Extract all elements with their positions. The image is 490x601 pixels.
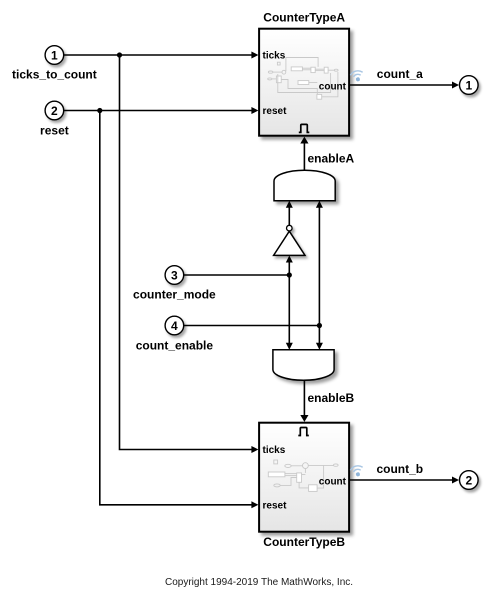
label counter_mode	[133, 288, 216, 302]
NOT gate	[274, 225, 305, 255]
subsystem CounterTypeB	[259, 423, 349, 532]
wire count_enable	[184, 325, 319, 327]
AND gate enableA	[274, 170, 335, 201]
svg-text:ticks_to_count: ticks_to_count	[12, 68, 97, 82]
svg-text:enableA: enableA	[308, 152, 355, 166]
inport 1	[45, 46, 64, 65]
logging badge A	[350, 70, 365, 83]
label enableA	[308, 152, 355, 166]
svg-text:count_enable: count_enable	[136, 339, 214, 353]
svg-text:4: 4	[171, 319, 178, 333]
svg-text:2: 2	[51, 104, 58, 118]
wire count_enable vertical to gates A and B	[316, 201, 323, 350]
wire NOT input	[286, 256, 293, 276]
CounterTypeB port label reset	[263, 500, 288, 511]
AND gate enableB	[273, 350, 334, 381]
CounterTypeB port label count	[319, 477, 347, 488]
svg-text:CounterTypeA: CounterTypeA	[263, 11, 345, 25]
subsystem CounterTypeA	[259, 29, 349, 136]
svg-text:1: 1	[51, 49, 58, 63]
label count_enable	[136, 339, 214, 353]
logging badge B	[350, 465, 365, 478]
inport 2	[45, 101, 64, 120]
copyright note	[165, 577, 353, 588]
svg-text:count: count	[319, 82, 347, 93]
CounterTypeB enable pulse symbol	[298, 428, 309, 436]
junction ticks	[117, 52, 122, 57]
outport 2	[460, 471, 479, 490]
wire reset horizontal	[64, 107, 258, 114]
CounterTypeA internal preview	[268, 58, 338, 100]
wire reset branch to CounterTypeB	[100, 111, 259, 509]
inport 4	[165, 316, 184, 335]
wire count_b	[350, 477, 459, 484]
label count_a	[377, 67, 423, 81]
svg-text:1: 1	[465, 79, 472, 93]
wire NOT output to AND gate A	[286, 201, 293, 226]
wire enableA	[300, 137, 308, 170]
wire ticks branch to CounterTypeB	[120, 55, 259, 453]
wire count_a	[350, 82, 459, 89]
label reset	[40, 124, 69, 138]
inport 3	[165, 266, 184, 285]
label enableB	[308, 391, 355, 405]
CounterTypeA port label count	[319, 82, 347, 93]
svg-text:reset: reset	[263, 106, 288, 117]
junction count_enable	[317, 323, 322, 328]
junction reset	[97, 108, 102, 113]
svg-text:count: count	[319, 477, 347, 488]
svg-text:reset: reset	[40, 124, 69, 138]
wire counter_mode	[184, 274, 289, 276]
wire counter_mode down to AND gate B	[286, 275, 293, 350]
label ticks_to_count	[12, 68, 97, 82]
CounterTypeA enable pulse symbol	[299, 124, 310, 132]
svg-text:CounterTypeB: CounterTypeB	[263, 535, 345, 549]
label CounterTypeB	[263, 535, 345, 549]
CounterTypeB port label ticks	[263, 445, 286, 456]
CounterTypeB internal preview	[268, 460, 338, 491]
svg-text:ticks: ticks	[263, 51, 286, 62]
svg-text:count_b: count_b	[376, 462, 423, 476]
wire ticks_to_count horizontal	[64, 52, 258, 59]
wire enableB	[300, 380, 308, 422]
svg-text:ticks: ticks	[263, 445, 286, 456]
svg-text:2: 2	[465, 474, 472, 488]
svg-text:enableB: enableB	[308, 391, 355, 405]
label CounterTypeA	[263, 11, 345, 25]
svg-text:reset: reset	[263, 500, 288, 511]
svg-text:count_a: count_a	[377, 67, 423, 81]
junction counter_mode	[287, 272, 292, 277]
svg-text:Copyright 1994-2019 The MathWo: Copyright 1994-2019 The MathWorks, Inc.	[165, 577, 353, 588]
outport 1	[460, 76, 479, 95]
CounterTypeA port label ticks	[263, 51, 286, 62]
svg-text:counter_mode: counter_mode	[133, 288, 216, 302]
label count_b	[376, 462, 423, 476]
CounterTypeA port label reset	[263, 106, 288, 117]
svg-text:3: 3	[171, 269, 178, 283]
